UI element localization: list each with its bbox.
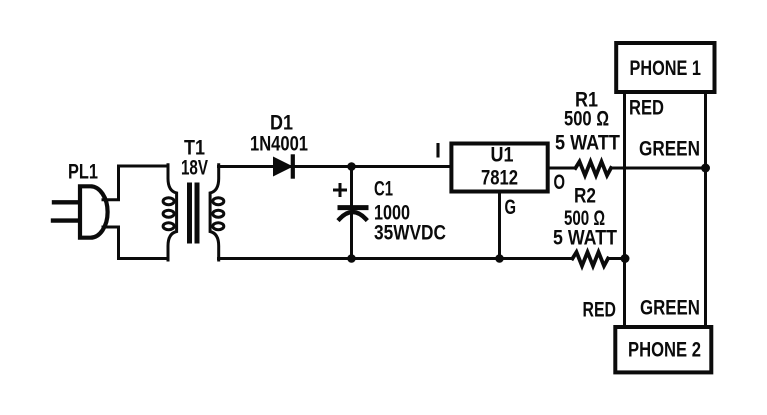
node junction dot bottom of C1 bbox=[347, 254, 356, 263]
plug PL1 prong lower bbox=[53, 218, 79, 222]
phone 1 box bbox=[616, 43, 714, 92]
diode D1 cathode bar bbox=[291, 156, 295, 176]
wire U1 ground lead bbox=[498, 193, 501, 259]
plug PL1 body bbox=[80, 186, 108, 237]
svg-text:U1: U1 bbox=[491, 144, 514, 167]
wire R2 to red line bbox=[608, 257, 625, 260]
svg-text:D1: D1 bbox=[270, 112, 293, 135]
svg-text:R2: R2 bbox=[574, 185, 596, 208]
svg-text:RED: RED bbox=[629, 97, 664, 120]
svg-text:35WVDC: 35WVDC bbox=[374, 222, 446, 245]
svg-text:GREEN: GREEN bbox=[640, 297, 700, 320]
wire U1 output to R1 bbox=[548, 167, 576, 170]
wire green line phone1 to phone2 bbox=[704, 93, 707, 326]
resistor R1 bbox=[576, 162, 612, 176]
svg-text:PHONE 1: PHONE 1 bbox=[630, 57, 702, 80]
svg-text:PHONE 2: PHONE 2 bbox=[628, 339, 701, 362]
node junction dot R1 green line bbox=[701, 164, 710, 173]
svg-text:I: I bbox=[435, 140, 441, 163]
svg-text:C1: C1 bbox=[374, 178, 393, 201]
svg-text:1N4001: 1N4001 bbox=[250, 133, 308, 156]
svg-text:18V: 18V bbox=[181, 157, 208, 180]
wire bottom rail transformer to R2 bbox=[219, 257, 573, 260]
wire red line phone1 to phone2 bbox=[623, 93, 626, 326]
transformer T1 primary winding bbox=[168, 165, 177, 260]
wire plug lower lead bbox=[103, 227, 168, 259]
wire top rail transformer to U1 input bbox=[219, 165, 452, 168]
svg-text:GREEN: GREEN bbox=[639, 138, 700, 161]
plug PL1 prong upper bbox=[54, 200, 79, 204]
node junction dot ground lead bbox=[495, 254, 504, 263]
wire R1 to green node bbox=[611, 167, 706, 170]
wire plug upper lead bbox=[103, 166, 168, 200]
svg-text:5 WATT: 5 WATT bbox=[555, 132, 620, 155]
svg-text:7812: 7812 bbox=[481, 167, 518, 190]
svg-text:5 WATT: 5 WATT bbox=[553, 227, 617, 250]
capacitor C1 plus sign bbox=[335, 185, 346, 196]
svg-text:O: O bbox=[554, 171, 566, 194]
svg-text:RED: RED bbox=[583, 299, 617, 322]
capacitor C1 top plate bbox=[340, 205, 366, 210]
node junction dot top of C1 bbox=[347, 162, 356, 171]
capacitor C1 top lead bbox=[350, 167, 353, 207]
transformer T1 secondary winding bbox=[210, 165, 219, 260]
node junction dot R2 red line bbox=[621, 254, 630, 263]
transformer T1 core bar right bbox=[195, 185, 200, 241]
transformer T1 core bar left bbox=[187, 185, 192, 241]
resistor R2 bbox=[573, 252, 609, 266]
svg-text:500 Ω: 500 Ω bbox=[564, 108, 609, 131]
capacitor C1 bottom lead bbox=[350, 214, 353, 259]
capacitor C1 curved plate bbox=[340, 212, 366, 219]
svg-text:G: G bbox=[505, 196, 517, 219]
phone 2 box bbox=[615, 327, 711, 372]
svg-text:PL1: PL1 bbox=[68, 161, 98, 184]
diode D1 triangle bbox=[274, 157, 293, 175]
op-amp U1 regulator box bbox=[451, 144, 547, 192]
